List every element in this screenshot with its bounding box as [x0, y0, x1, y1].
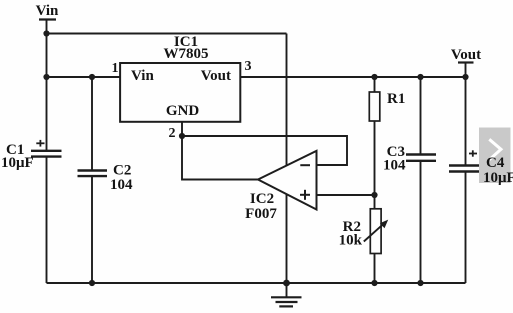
svg-text:C4: C4	[486, 155, 505, 171]
wire junction to R2	[374, 195, 376, 209]
wire feedback horizontal to inverting input	[182, 136, 347, 165]
svg-text:IC2: IC2	[250, 191, 274, 207]
wire top rail	[47, 33, 287, 35]
wire R2 bottom	[374, 254, 376, 284]
capacitor C3	[406, 155, 436, 161]
svg-text:W7805: W7805	[164, 46, 209, 62]
node dot Vin top rail	[43, 30, 49, 36]
svg-text:1: 1	[112, 61, 119, 76]
overlay gray box	[479, 128, 511, 184]
wire left vertical below C1	[46, 157, 48, 283]
svg-text:R1: R1	[387, 91, 405, 107]
wire second rail to pin 1	[47, 76, 121, 78]
svg-text:2: 2	[169, 126, 176, 141]
capacitor C2	[78, 171, 108, 177]
node dot Vout	[462, 74, 468, 80]
terminal Vout	[451, 47, 481, 77]
wire C4 column bottom	[465, 172, 467, 284]
svg-text:104: 104	[383, 158, 406, 174]
wire R1 bottom to junction	[374, 121, 376, 195]
wire op-amp output to pin 2	[182, 136, 258, 180]
svg-text:10k: 10k	[339, 233, 363, 249]
node dot Vin second rail	[43, 74, 49, 80]
capacitor C4	[449, 150, 480, 171]
node dot C2 bottom	[89, 280, 95, 286]
op-amp U IC2 triangle	[258, 151, 317, 210]
resistor R2 potentiometer	[364, 209, 388, 254]
svg-text:Vout: Vout	[201, 68, 231, 84]
svg-text:10μF: 10μF	[483, 170, 513, 186]
node dot pin 2	[179, 133, 185, 139]
svg-text:104: 104	[110, 177, 133, 193]
overlay chevron	[489, 139, 501, 160]
node dot C3 top	[417, 74, 423, 80]
svg-text:Vin: Vin	[36, 3, 59, 19]
wire C2 column bottom	[91, 176, 93, 283]
resistor R1	[369, 92, 380, 121]
ground	[271, 283, 302, 306]
wire C3 column top	[420, 77, 422, 155]
terminal Vin	[36, 3, 59, 34]
svg-text:Vout: Vout	[451, 47, 481, 63]
wire C3 column bottom	[420, 161, 422, 283]
wire C4 column top	[465, 77, 467, 166]
IC1 regulator box W7805	[120, 34, 240, 122]
svg-text:GND: GND	[166, 103, 200, 119]
wire left vertical (Vin rail down)	[46, 34, 48, 151]
wire C2 column top	[91, 77, 93, 171]
capacitor C1	[31, 140, 62, 157]
node dot R1 top	[371, 74, 377, 80]
svg-text:Vin: Vin	[131, 68, 154, 84]
svg-text:10μF: 10μF	[1, 155, 34, 171]
wire pin 2 stub	[181, 122, 183, 136]
node dot R2 bottom	[371, 280, 377, 286]
wire op-amp supply vertical	[286, 34, 288, 284]
node dot R1-R2 junction	[371, 192, 377, 198]
wire R1 top stub	[374, 77, 376, 92]
node dot C2 top	[89, 74, 95, 80]
node dot C3 bottom	[417, 280, 423, 286]
node dot ground junction	[283, 280, 290, 287]
wire bottom rail	[47, 282, 466, 284]
wire non-inverting input	[317, 194, 375, 196]
svg-text:3: 3	[245, 59, 252, 74]
svg-text:F007: F007	[245, 206, 277, 222]
wire pin 3 rail to Vout	[240, 76, 465, 78]
